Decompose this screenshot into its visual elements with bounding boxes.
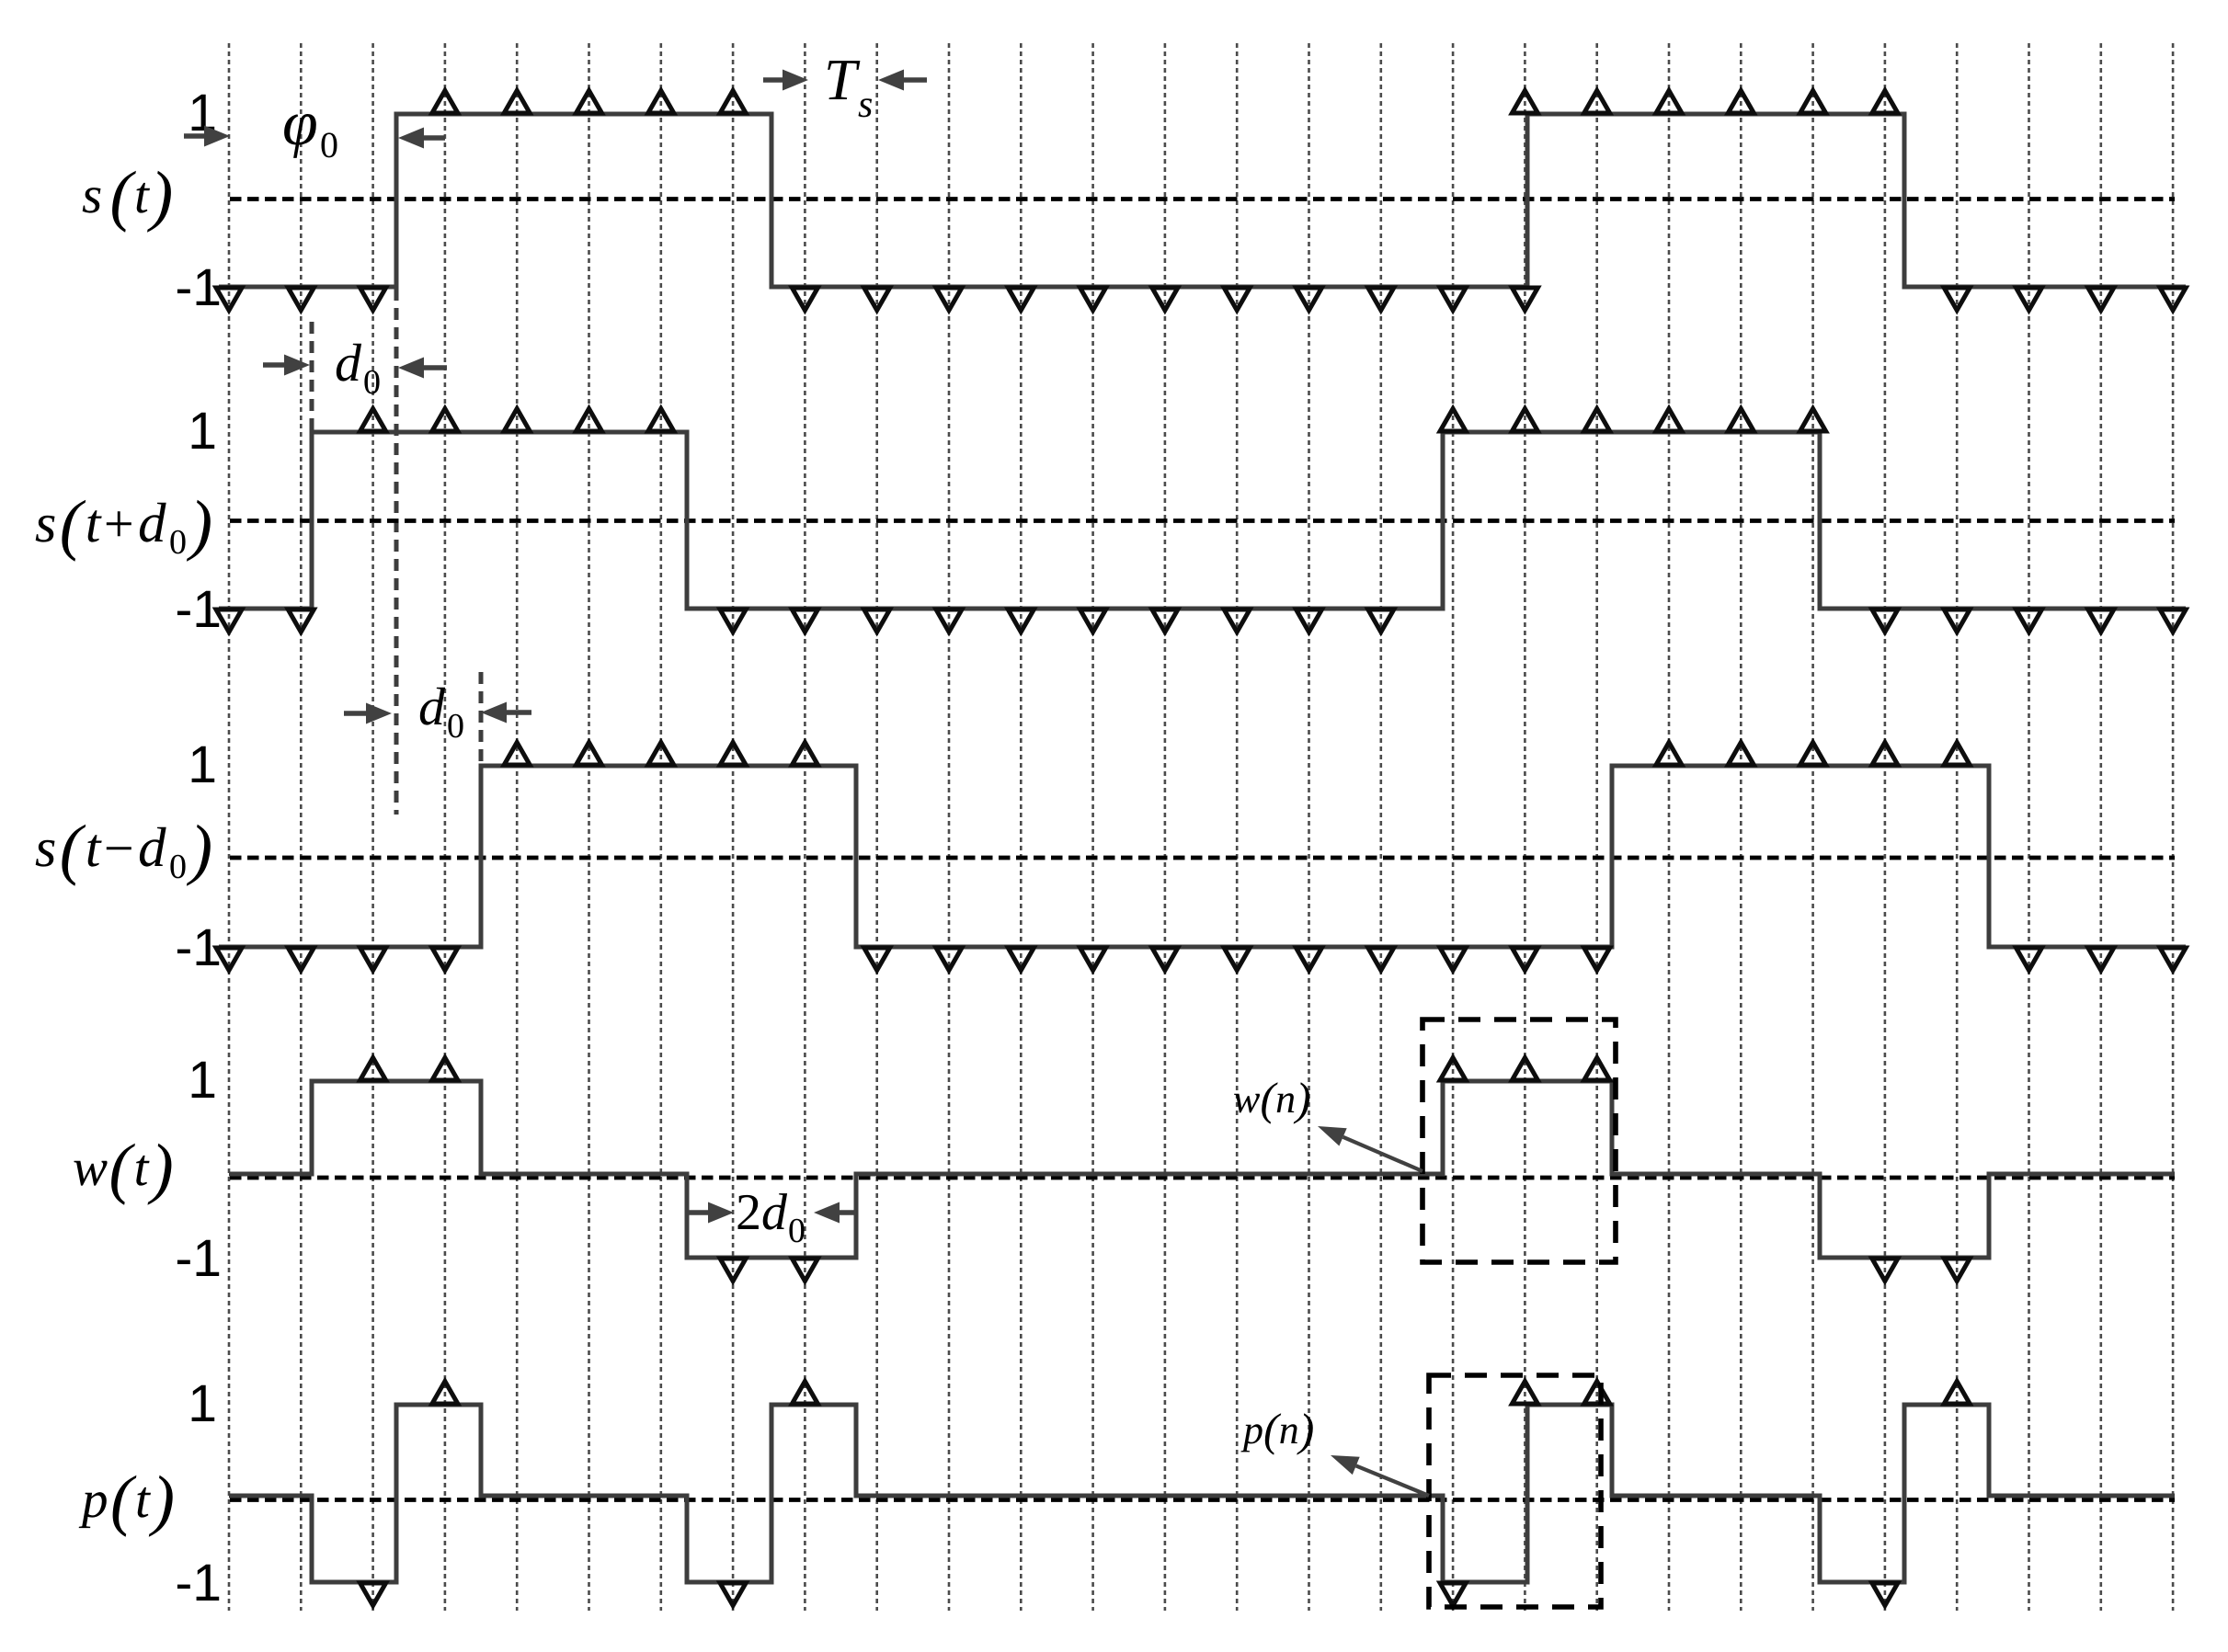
axis label -1 of w(t): [177, 1260, 190, 1265]
dashed observation box p(n): [1429, 1375, 1601, 1607]
signal label s(t-d0): [36, 825, 211, 886]
axis label 1 of s(t+d0): [192, 413, 215, 449]
node w(t) zero axis (dashed): [230, 1176, 2175, 1180]
node s(t) zero axis (dashed): [230, 197, 2175, 201]
axis label 1 of s(t-d0): [192, 746, 215, 782]
annotation phi0 right-pointing arrow at first gridline: [204, 126, 230, 147]
sample arrows of s(t+d0): [216, 409, 2186, 632]
marker dashed edge line of s(t+d0) rise, x=339: [310, 322, 314, 432]
axis label -1 of s(t+d0): [177, 611, 190, 616]
wire waveform w(t): [229, 1081, 2175, 1258]
wire waveform p(t): [229, 1405, 2175, 1582]
annotation Ts right-pointing arrow: [783, 70, 808, 91]
annotation d0 (upper) right-pointing arrow: [284, 355, 310, 376]
axis label 1 of w(t): [192, 1062, 215, 1098]
node s(t+d0) zero axis (dashed): [230, 518, 2175, 523]
marker dashed edge line of s(t) rise, x=431: [394, 289, 399, 815]
dashed observation box w(n): [1422, 1020, 1616, 1262]
annotation d0 (lower) right-pointing arrow: [366, 703, 392, 724]
annotation 2d0 right-pointing arrow: [708, 1202, 734, 1224]
annotation Ts left-pointing arrow: [878, 70, 904, 91]
annotation d0 (upper) label: [337, 344, 380, 394]
node s(t-d0) zero axis (dashed): [230, 856, 2175, 860]
axis label -1 of p(t): [177, 1585, 190, 1589]
sample arrows of p(t): [360, 1382, 1971, 1606]
signal label w(t): [74, 1144, 171, 1205]
annotation d0 (upper) left-pointing arrow: [398, 358, 424, 379]
sample arrows of w(t): [360, 1058, 1971, 1282]
annotation phi0 left-pointing arrow at s(t) rising edge: [398, 128, 424, 149]
leader arrow from p(n) box to label: [1331, 1455, 1360, 1475]
annotation d0 (lower) left-pointing arrow: [481, 702, 507, 723]
signal label s(t+d0): [36, 500, 211, 562]
annotation d0 (lower) label: [420, 688, 463, 738]
marker dashed edge line of s(t-d0) rise, x=523: [479, 672, 484, 764]
wire waveform s(t+d0): [219, 432, 2186, 609]
signal label p(t): [79, 1475, 173, 1537]
sample arrows of s(t): [216, 91, 2186, 311]
axis label -1 of s(t-d0): [177, 950, 190, 954]
axis label 1 of s(t): [192, 95, 215, 131]
wire waveform s(t-d0): [219, 766, 2186, 947]
axis label -1 of s(t): [177, 290, 190, 294]
node p(t) zero axis (dashed): [230, 1498, 2175, 1502]
signal label s(t): [83, 171, 171, 233]
annotation 2d0 left-pointing arrow: [814, 1202, 840, 1224]
leader arrow from w(n) box to label: [1318, 1126, 1347, 1146]
annotation 2d0 label: [738, 1193, 805, 1242]
wire waveform s(t): [219, 114, 2186, 287]
axis label 1 of p(t): [192, 1385, 215, 1421]
annotation Ts label: [828, 61, 872, 117]
label w(n): [1234, 1082, 1309, 1123]
label p(n): [1240, 1413, 1312, 1454]
sample arrows of s(t-d0): [216, 743, 2186, 971]
annotation phi0 label: [284, 114, 337, 158]
